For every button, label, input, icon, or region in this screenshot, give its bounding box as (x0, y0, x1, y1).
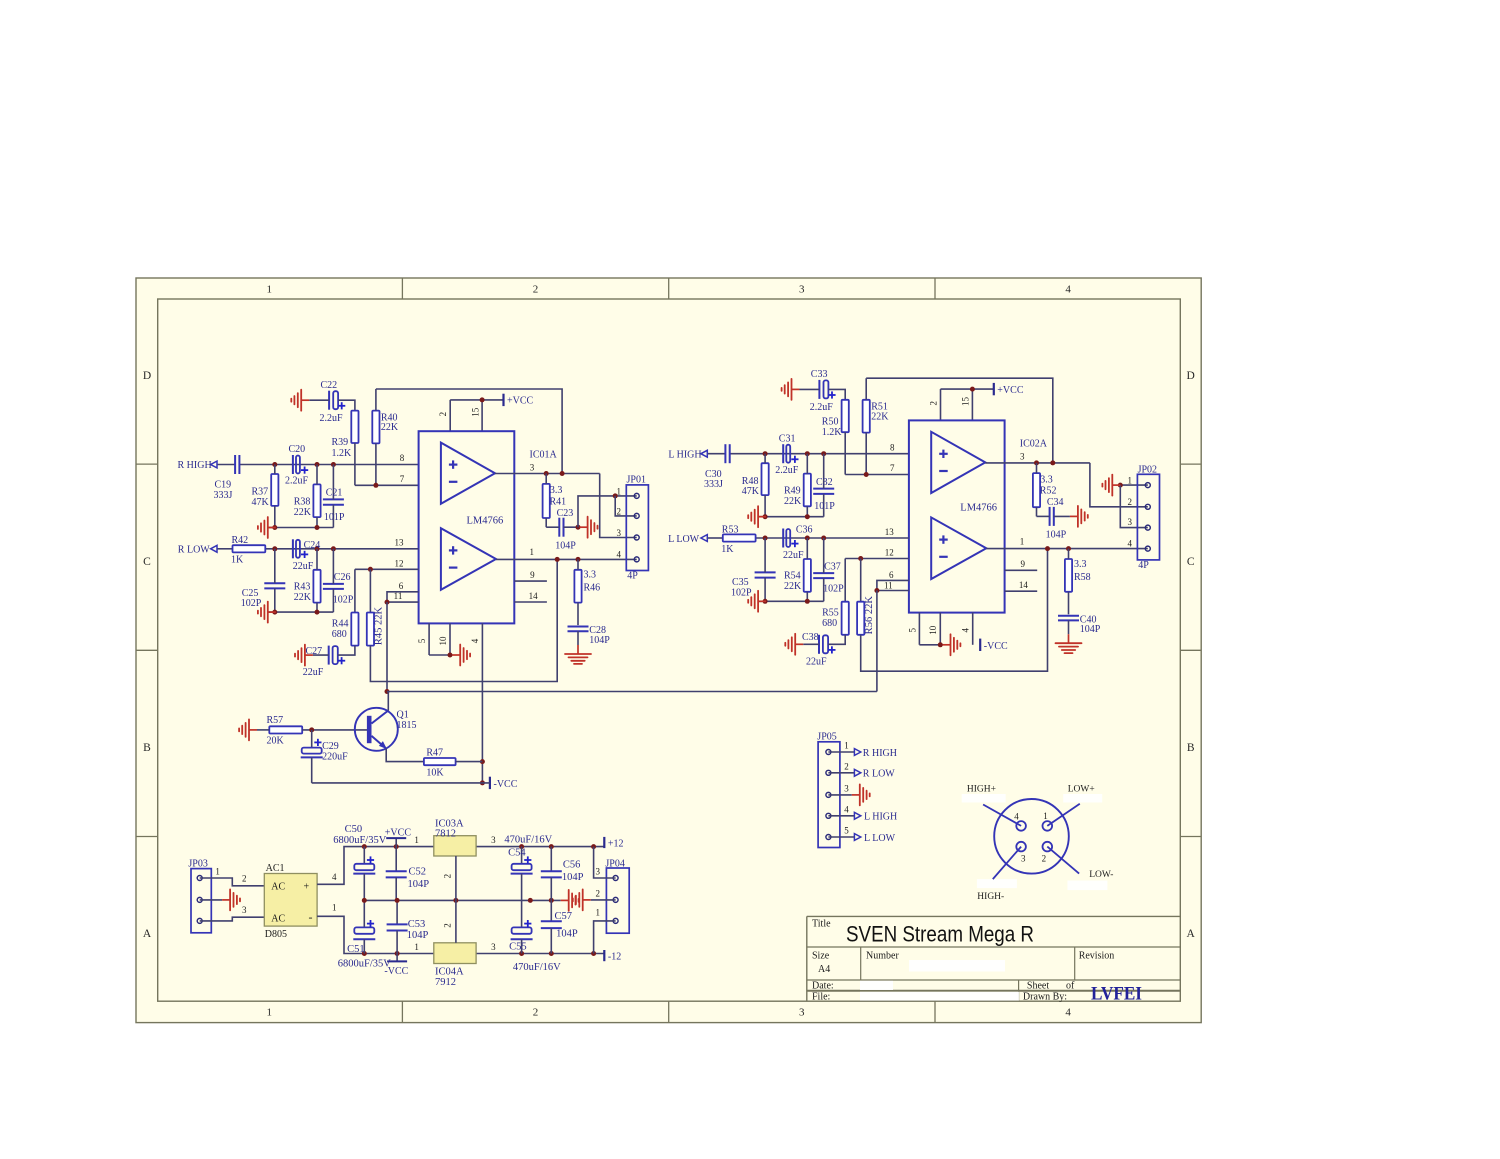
svg-text:C26: C26 (334, 572, 351, 583)
wire: JP04 pin3 to +12 rail (594, 847, 616, 878)
svg-text:JP01: JP01 (627, 475, 646, 486)
svg-text:C20: C20 (289, 444, 306, 455)
svg-text:R52: R52 (1040, 486, 1057, 497)
svg-text:R HIGH: R HIGH (178, 460, 212, 471)
svg-text:9: 9 (530, 570, 535, 580)
op-amp IC01A-1 (441, 443, 495, 504)
svg-text:C33: C33 (811, 369, 828, 380)
svg-text:R41: R41 (550, 496, 567, 507)
svg-text:C23: C23 (557, 508, 574, 519)
capacitor C53 (387, 900, 429, 953)
power -VCC tap (384, 954, 408, 978)
svg-text:2: 2 (616, 506, 621, 516)
svg-text:3.3: 3.3 (550, 485, 563, 496)
svg-text:7: 7 (400, 474, 405, 484)
label A4 (818, 964, 830, 975)
svg-text:5: 5 (907, 627, 917, 632)
power -VCC (980, 639, 1008, 652)
port L HIGH (668, 449, 707, 460)
resistor R50 (822, 400, 849, 475)
svg-text:+VCC: +VCC (997, 385, 1024, 396)
svg-text:LM4766: LM4766 (467, 515, 504, 526)
svg-text:R39: R39 (332, 437, 349, 448)
wire: input ground bus upper L (758, 514, 824, 519)
svg-text:2: 2 (242, 874, 247, 884)
wire: R HIGH input net (217, 462, 419, 467)
svg-text:22uF: 22uF (806, 657, 827, 668)
svg-text:LM4766: LM4766 (960, 503, 997, 514)
svg-text:3: 3 (530, 462, 535, 472)
capacitor C37 (813, 538, 844, 601)
resistor R54 (784, 538, 811, 601)
svg-text:R58: R58 (1074, 572, 1091, 583)
wire: pin9 pin14 stubs IC01 (514, 581, 547, 602)
wire: +VCC distribution rail (362, 844, 605, 849)
svg-text:IC02A: IC02A (1020, 439, 1048, 450)
svg-text:AC: AC (271, 914, 285, 925)
svg-text:104P: 104P (589, 635, 610, 646)
svg-text:1.2K: 1.2K (332, 448, 353, 459)
capacitor C25 (241, 549, 286, 612)
power +VCC (994, 383, 1024, 396)
svg-text:4: 4 (1014, 812, 1019, 822)
capacitor C56 (541, 847, 584, 901)
svg-text:3: 3 (242, 905, 247, 915)
connector JP02 (1128, 465, 1160, 571)
pin numbers IC01 (394, 407, 538, 645)
white patch date (860, 981, 893, 990)
wire: JP01 pins 1-2 ground tie (578, 493, 637, 527)
capacitor C22 (309, 380, 345, 424)
svg-text:Revision: Revision (1079, 951, 1115, 962)
svg-text:3: 3 (799, 284, 805, 296)
label Number (866, 951, 899, 962)
resistor R52 (1033, 463, 1057, 517)
connector JP01 (616, 475, 648, 582)
capacitor C35 (731, 538, 776, 601)
ground (1070, 506, 1088, 527)
wire: JP03 pin3 to AC1 (200, 917, 265, 921)
svg-text:C50: C50 (345, 824, 363, 835)
wire: pin6 pin11 net IC02 (874, 580, 909, 691)
wire: input ground bus lower L (758, 599, 824, 604)
svg-text:R50: R50 (822, 416, 839, 427)
op-amp IC02A-1 (931, 432, 985, 493)
svg-text:-VCC: -VCC (494, 779, 518, 790)
svg-text:2: 2 (533, 284, 539, 296)
wire: pin12 net IC02 (845, 556, 909, 602)
ground (291, 390, 309, 411)
svg-text:1K: 1K (231, 555, 244, 566)
wire: IC01 pins 5,10 to ground (429, 623, 452, 657)
svg-text:10K: 10K (426, 768, 444, 779)
wire: R LOW input net (217, 546, 419, 551)
capacitor C27 (303, 646, 346, 678)
svg-text:AC: AC (271, 882, 285, 893)
label Size (812, 951, 830, 962)
svg-text:C: C (1187, 556, 1195, 568)
capacitor C20 (285, 444, 309, 486)
ground (1056, 634, 1082, 653)
svg-text:22K: 22K (784, 496, 802, 507)
svg-text:22K: 22K (294, 592, 312, 603)
white patch number (909, 960, 1005, 972)
svg-text:1: 1 (414, 942, 419, 952)
label IC01A (530, 449, 558, 460)
ground (580, 517, 598, 538)
wire: feedback rail IC02 (866, 378, 1053, 463)
power +VCC tap (385, 827, 412, 846)
svg-text:C34: C34 (1047, 497, 1064, 508)
svg-text:5: 5 (844, 826, 849, 836)
svg-text:C52: C52 (409, 867, 427, 878)
svg-text:1: 1 (596, 907, 601, 917)
ground (1102, 475, 1120, 496)
svg-text:C: C (143, 556, 151, 568)
svg-text:R42: R42 (232, 535, 249, 546)
svg-text:R53: R53 (722, 524, 739, 535)
svg-text:3: 3 (1128, 517, 1133, 527)
resistor R43 (294, 549, 321, 612)
svg-text:680: 680 (332, 629, 347, 640)
op-amp IC02 block (909, 420, 1005, 612)
svg-text:14: 14 (1019, 580, 1029, 590)
svg-text:JP03: JP03 (188, 858, 207, 869)
svg-text:1815: 1815 (397, 720, 417, 731)
svg-text:4: 4 (1065, 1007, 1071, 1019)
svg-text:47K: 47K (252, 497, 270, 508)
svg-text:1: 1 (267, 284, 273, 296)
svg-text:680: 680 (822, 618, 837, 629)
svg-text:JP04: JP04 (605, 858, 624, 869)
wire: JP05 pin1 port R HIGH (828, 748, 897, 759)
regulator IC04A 7912 (414, 900, 496, 988)
svg-text:R38: R38 (294, 496, 311, 507)
svg-text:470uF/16V: 470uF/16V (504, 835, 552, 846)
capacitor C40 (1058, 614, 1101, 635)
svg-text:R55: R55 (822, 608, 839, 619)
wire: +VCC rail IC02 (pins 2,15) (941, 387, 994, 421)
svg-text:15: 15 (470, 407, 480, 417)
svg-text:1: 1 (844, 741, 849, 751)
power -12 (604, 950, 621, 963)
svg-text:22K: 22K (294, 507, 312, 518)
svg-text:2.2uF: 2.2uF (775, 465, 799, 476)
port R LOW (178, 545, 217, 556)
svg-text:12: 12 (885, 548, 894, 558)
svg-text:20K: 20K (267, 735, 285, 746)
svg-text:C36: C36 (796, 525, 813, 536)
wire: pin12 net IC01 (355, 567, 419, 613)
svg-text:+: + (304, 882, 310, 893)
wire: long rail to IC02 pins 6-11 (387, 691, 877, 693)
rectifier AC1 D805 (264, 863, 337, 940)
op-amp IC01A-2 (441, 528, 496, 590)
svg-text:L HIGH: L HIGH (864, 812, 897, 823)
resistor R40 (372, 389, 399, 485)
svg-text:3: 3 (1020, 452, 1025, 462)
resistor R41 (543, 474, 567, 528)
resistor R45 (367, 606, 385, 645)
svg-text:2: 2 (1042, 854, 1047, 864)
svg-text:14: 14 (529, 591, 539, 601)
svg-text:A4: A4 (818, 964, 830, 975)
svg-text:R54: R54 (784, 571, 801, 582)
svg-text:IC01A: IC01A (530, 449, 558, 460)
wire: R55 to C38 (828, 635, 845, 645)
white patch (1063, 794, 1102, 803)
svg-text:1K: 1K (721, 544, 734, 555)
wire: output pin3 net IC01 (495, 471, 637, 538)
wire: AC1 - output to -VCC rail (317, 916, 364, 953)
resistor R55 (822, 602, 849, 635)
label LOW- (1089, 870, 1113, 880)
wire: JP04 pin2 to ground (591, 899, 616, 901)
ground (258, 517, 276, 538)
title block frame (807, 916, 1181, 1001)
svg-text:R45 22K: R45 22K (374, 606, 385, 645)
svg-text:R46: R46 (584, 583, 601, 594)
connector JP03 (188, 858, 247, 932)
label Date (812, 981, 834, 992)
ground (258, 602, 276, 623)
wire: JP02 pins 1-3 ground tie (1118, 483, 1148, 528)
svg-text:3.3: 3.3 (1040, 474, 1053, 485)
svg-text:22uF: 22uF (303, 667, 324, 678)
capacitor C28 (568, 625, 611, 646)
svg-text:+12: +12 (608, 838, 624, 849)
resistor R57 (257, 715, 368, 746)
svg-text:Sheet: Sheet (1027, 981, 1049, 992)
wire: JP05 pin3 to ground (828, 794, 851, 796)
capacitor C24 (293, 539, 321, 572)
svg-text:104P: 104P (1046, 530, 1067, 541)
wire: +VCC rail IC01 (pins 2,15) (450, 397, 503, 431)
svg-text:R44: R44 (332, 619, 349, 630)
power -VCC (490, 777, 518, 790)
ground (452, 645, 470, 666)
svg-text:3: 3 (1021, 854, 1026, 864)
svg-text:-VCC: -VCC (984, 641, 1008, 652)
svg-text:C56: C56 (563, 860, 581, 871)
regulator IC03A 7812 (414, 818, 496, 900)
svg-text:D: D (1187, 370, 1195, 382)
resistor R44 (332, 613, 359, 646)
capacitor C33 (800, 369, 836, 413)
svg-text:D: D (143, 370, 151, 382)
svg-text:101P: 101P (814, 501, 835, 512)
svg-text:-12: -12 (608, 952, 621, 963)
svg-text:IC04A: IC04A (435, 966, 464, 977)
svg-text:4: 4 (332, 872, 337, 882)
svg-text:C37: C37 (824, 561, 841, 572)
svg-text:470uF/16V: 470uF/16V (513, 962, 561, 973)
wire: IC02 pin 4 to -VCC (972, 613, 974, 645)
resistor R48 (742, 454, 769, 517)
capacitor C21 (323, 465, 345, 528)
svg-text:8: 8 (890, 442, 895, 452)
power +12 (604, 837, 623, 849)
wire: C33 to R50 (828, 389, 845, 399)
svg-text:2: 2 (533, 1007, 539, 1019)
svg-text:2: 2 (1128, 497, 1133, 507)
ground (748, 506, 766, 527)
wire: R45 feedback loop to output (370, 559, 557, 681)
svg-text:2: 2 (443, 923, 453, 928)
capacitor C38 (802, 632, 836, 667)
svg-text:6: 6 (399, 581, 404, 591)
svg-text:102P: 102P (333, 594, 354, 605)
op-amp IC02A-2 (931, 517, 986, 579)
svg-text:333J: 333J (214, 490, 233, 501)
wire: JP05 pin4 port L HIGH (828, 812, 897, 823)
svg-text:10: 10 (928, 625, 938, 635)
svg-text:5: 5 (417, 638, 427, 643)
ground (852, 784, 870, 805)
pin numbers IC02 (884, 397, 1028, 635)
svg-text:22K: 22K (871, 411, 889, 422)
ground (295, 645, 313, 666)
svg-text:22K: 22K (381, 422, 399, 433)
svg-text:D805: D805 (265, 929, 287, 940)
capacitor C31 (775, 433, 799, 475)
svg-text:104P: 104P (562, 872, 584, 883)
svg-text:L LOW: L LOW (864, 833, 896, 844)
svg-text:104P: 104P (1080, 624, 1101, 635)
svg-text:4P: 4P (1138, 560, 1149, 571)
svg-text:220uF: 220uF (322, 751, 348, 762)
resistor R37 (252, 465, 279, 528)
svg-text:1.2K: 1.2K (822, 427, 843, 438)
svg-text:R HIGH: R HIGH (863, 748, 897, 759)
svg-text:7912: 7912 (435, 977, 456, 988)
svg-text:of: of (1066, 981, 1075, 992)
svg-text:B: B (143, 742, 151, 754)
svg-text:C32: C32 (816, 477, 833, 488)
wire: Q1 emitter to R47 (386, 749, 424, 762)
svg-text:Drawn By:: Drawn By: (1023, 991, 1067, 1002)
svg-text:1: 1 (267, 1007, 273, 1019)
svg-text:Size: Size (812, 951, 830, 962)
connector JP04 (596, 858, 630, 933)
svg-text:104P: 104P (556, 928, 578, 939)
wire: IC02 pins 5,10 to ground (919, 613, 942, 648)
wire: AC1 + output to +VCC rail (317, 847, 364, 885)
ground (573, 889, 591, 910)
wire: output pin1 net IC01 (496, 557, 637, 562)
svg-text:2.2uF: 2.2uF (810, 402, 834, 413)
svg-text:12: 12 (395, 558, 404, 568)
wire: feedback rail IC01 (output to R40) (376, 389, 562, 474)
svg-text:Date:: Date: (812, 981, 834, 992)
label Sheet of (1027, 981, 1075, 992)
label IC02A (1020, 439, 1048, 450)
svg-text:101P: 101P (324, 512, 345, 523)
frame column ticks and labels (267, 278, 1072, 1023)
svg-text:2: 2 (844, 762, 849, 772)
svg-text:C31: C31 (779, 433, 796, 444)
label Drawn By (1023, 991, 1067, 1002)
wire: JP05 pin5 port L LOW (828, 833, 895, 844)
svg-text:11: 11 (884, 580, 893, 590)
resistor R46 (574, 559, 600, 625)
capacitor C55 (509, 900, 561, 973)
svg-text:Number: Number (866, 951, 899, 962)
svg-text:A: A (1187, 928, 1196, 940)
svg-text:104P: 104P (408, 879, 430, 890)
frame row ticks and labels (136, 370, 1201, 940)
svg-text:7: 7 (890, 463, 895, 473)
ground (222, 889, 240, 910)
wire: pin7 net IC01 (355, 483, 419, 488)
wire: JP04 pin1 to -12 rail (594, 921, 616, 954)
svg-text:C38: C38 (802, 632, 819, 643)
wire: pin9 pin14 stubs IC02 (1005, 570, 1038, 591)
svg-text:333J: 333J (704, 479, 723, 490)
svg-text:Title: Title (812, 919, 831, 930)
wire: -VCC distribution rail (362, 951, 605, 956)
svg-text:102P: 102P (823, 584, 844, 595)
svg-text:3: 3 (596, 867, 601, 877)
svg-text:HIGH-: HIGH- (977, 892, 1004, 902)
svg-text:3: 3 (844, 784, 849, 794)
resistor R51 (863, 378, 890, 474)
svg-text:3.3: 3.3 (584, 570, 597, 581)
ground (565, 645, 591, 664)
ground (561, 890, 579, 911)
wire: pin7 net IC02 (845, 472, 909, 477)
svg-text:R LOW: R LOW (178, 545, 211, 556)
svg-text:R43: R43 (294, 581, 311, 592)
wire: output pin1 net IC02 (986, 546, 1148, 551)
svg-text:1: 1 (529, 547, 534, 557)
svg-text:6: 6 (889, 570, 894, 580)
ground (943, 634, 961, 655)
label File (812, 991, 830, 1002)
svg-text:13: 13 (885, 527, 895, 537)
resistor R39 (332, 411, 359, 486)
resistor R56 (857, 596, 875, 635)
capacitor C57 (541, 900, 578, 953)
svg-text:104P: 104P (555, 540, 576, 551)
ground (782, 379, 800, 400)
label Title (812, 919, 831, 930)
transistor Q1 (355, 692, 417, 751)
schematic sheet background (136, 278, 1201, 1023)
svg-text:+VCC: +VCC (507, 396, 534, 407)
port L LOW (668, 534, 707, 545)
wire: L LOW input net (707, 536, 909, 541)
svg-text:C22: C22 (321, 380, 338, 391)
svg-text:A: A (143, 928, 152, 940)
wire: JP05 pin2 port R LOW (828, 769, 895, 780)
capacitor C51 (338, 900, 392, 969)
ground (785, 634, 803, 655)
svg-text:1: 1 (215, 867, 220, 877)
svg-text:3.3: 3.3 (1074, 559, 1087, 570)
svg-text:2: 2 (443, 874, 453, 879)
svg-text:22uF: 22uF (293, 561, 314, 572)
wire: R44 to C27 (338, 646, 355, 656)
resistor R47 (424, 747, 483, 778)
resistor R53 (721, 524, 755, 554)
svg-text:47K: 47K (742, 486, 760, 497)
capacitor C54 (504, 835, 552, 901)
svg-text:AC1: AC1 (266, 863, 285, 874)
svg-text:13: 13 (395, 538, 405, 548)
svg-text:JP05: JP05 (817, 732, 836, 743)
wire: input ground bus lower (268, 610, 334, 615)
